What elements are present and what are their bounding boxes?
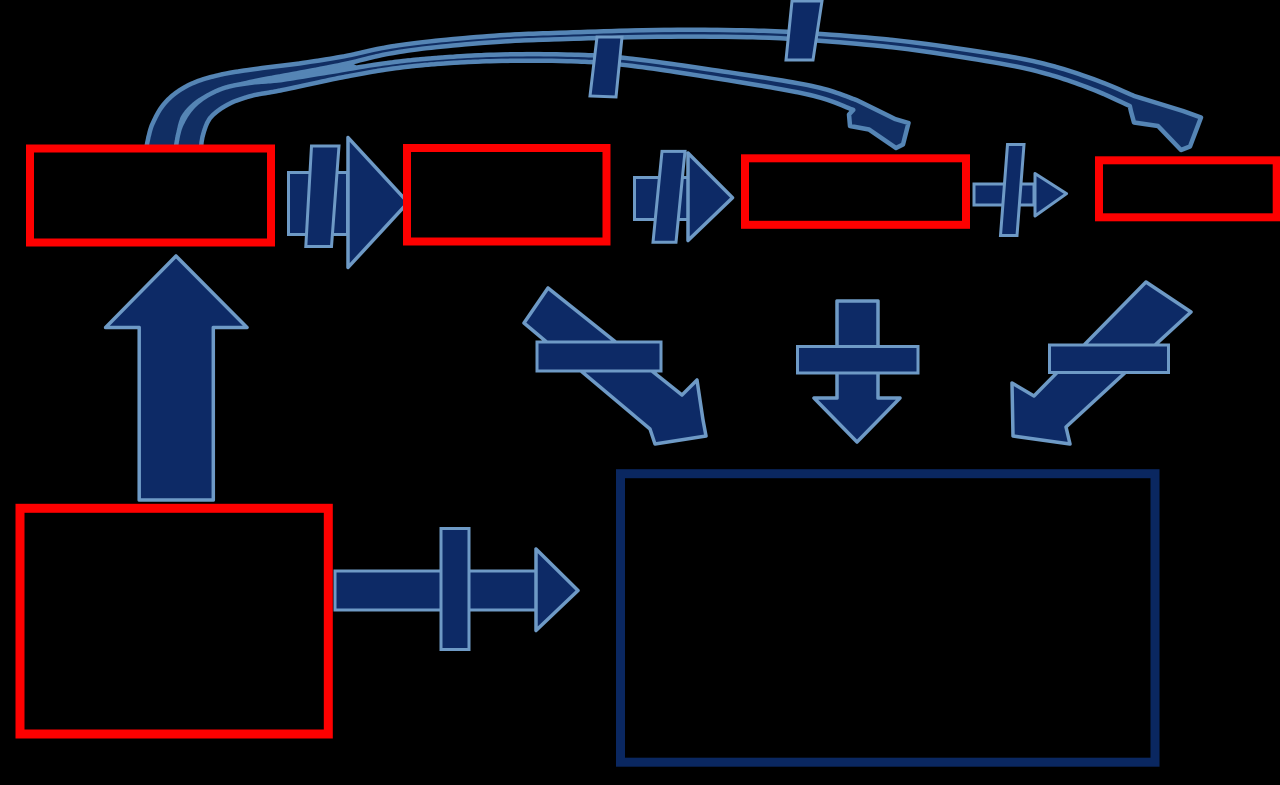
big up arrow (106, 256, 247, 500)
arrow box1-box2 head (348, 138, 408, 268)
bar on diagonal arrow right (1050, 345, 1169, 373)
arrow box1-box2 bar (306, 146, 339, 247)
red box 5 (bottom left) (20, 508, 328, 734)
red box 4 (1099, 160, 1277, 217)
light wedge between curve starts (161, 60, 362, 150)
arrow box2-box3 bar (653, 151, 685, 242)
arrow box3-box4 bar (1001, 145, 1025, 236)
diagonal arrow down-left (1012, 282, 1191, 444)
bar on diagonal arrow left (537, 342, 661, 371)
arrow box3-box4 head (1035, 174, 1067, 217)
navy box (621, 474, 1156, 763)
arrow box5-navybox head (536, 549, 578, 631)
arrow box5-navybox bar (441, 529, 469, 650)
arrow box2-box3 tail (635, 178, 689, 220)
red box 1 (30, 149, 271, 243)
tick bar 2 (786, 1, 822, 60)
arrow box1-box2 tail (289, 173, 348, 235)
feedback curve to box4 (146, 30, 1201, 153)
diagonal arrow down-right (524, 288, 706, 444)
red box 2 (407, 148, 607, 242)
feedback curve to box3 (176, 54, 909, 152)
arrow box3-box4 tail (974, 184, 1034, 205)
arrow box5-navybox shaft (335, 571, 536, 610)
red box 3 (745, 158, 966, 225)
bar on middle down arrow (798, 347, 919, 374)
middle down arrow (814, 301, 900, 442)
tick bar 1 (590, 37, 622, 97)
arrow box2-box3 head (688, 153, 733, 241)
